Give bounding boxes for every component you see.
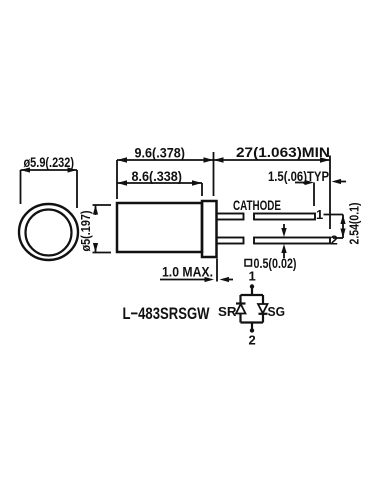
dimension square 0.5(0.02) arrows [283,224,285,258]
schematic left branch wire lower [239,314,241,323]
lead pin 2 segment b [254,238,330,244]
lead pin 2 segment a [217,238,244,244]
svg-text:ø5.9(.232): ø5.9(.232) [24,155,75,170]
lead pin 1 segment b [254,214,315,220]
svg-text:1.0 MAX.: 1.0 MAX. [162,265,213,280]
svg-text:1.5(.06)TYP: 1.5(.06)TYP [268,169,329,184]
svg-text:9.6(.378): 9.6(.378) [135,146,186,161]
schematic top rail wire [241,294,264,296]
LED body side view rectangle [117,203,202,252]
diode SG triangle [258,304,268,313]
svg-text:2.54(0.1): 2.54(0.1) [348,203,362,245]
schematic pin 2 wire [251,323,253,331]
svg-text:8.6(.338): 8.6(.338) [132,169,183,184]
dimension ø5 arrows [93,205,98,253]
svg-text:2: 2 [249,333,256,348]
LED flange [202,201,217,257]
dimension 9.6(.378) [117,152,214,199]
schematic pin 2 dot [250,328,254,332]
dimension ø5.9 arrows [21,167,78,172]
schematic left branch wire upper [239,295,241,304]
dimension ø5(.197) bracket [93,205,112,253]
schematic bottom rail wire [241,321,264,323]
svg-text:SG: SG [268,304,286,319]
svg-text:L−483SRSGW: L−483SRSGW [123,304,211,323]
svg-text:ø5(.197): ø5(.197) [79,211,93,252]
LED front view outer circle (flange dia 5.9) [19,204,78,260]
dimension 27(1.063)MIN [214,156,331,230]
dimension 2.54(0.1) bracket [333,215,343,239]
diode SG cathode bar [259,313,268,315]
svg-text:2: 2 [331,233,338,248]
svg-text:0.5(0.02): 0.5(0.02) [254,256,297,271]
svg-text:SR: SR [218,304,237,319]
schematic pin 1 dot [250,284,254,288]
pin 1 tick to 2.54 bracket [324,214,344,216]
schematic pin 1 wire [251,287,253,296]
svg-text:27(1.063)MIN: 27(1.063)MIN [236,145,330,160]
svg-text:CATHODE: CATHODE [233,198,281,213]
svg-text:1: 1 [316,207,323,222]
dimension 1.0 MAX. [160,259,233,282]
dimension ø5.9(.232) dim line [21,170,78,208]
schematic right branch wire upper [262,295,264,304]
schematic right branch wire lower [262,314,264,323]
svg-text:1: 1 [249,269,256,284]
dimension square 0.5(0.02) label [245,260,252,267]
dimension 1.5(.06)TYP [295,182,346,207]
LED front view inner circle (body dia 5) [26,210,72,256]
lead pin 1 segment a [217,214,244,220]
diode SR triangle [236,304,246,314]
diode SR cathode bar [236,302,246,304]
dimension 8.6(.338) [117,183,202,196]
